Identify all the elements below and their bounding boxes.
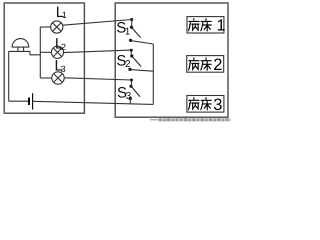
wire bus to lamp L2 bbox=[40, 51, 51, 53]
lamp bus vertical bbox=[39, 27, 41, 78]
right ward box bbox=[115, 3, 228, 117]
svg-text:1: 1 bbox=[125, 26, 131, 37]
left room box bbox=[4, 3, 84, 113]
switch S1 bbox=[129, 18, 141, 42]
wire bus to lamp L3 bbox=[40, 77, 52, 79]
svg-text:3: 3 bbox=[61, 64, 66, 74]
wire lamp L3 to switch S3 bbox=[64, 78, 131, 80]
battery negative plate bbox=[28, 98, 30, 106]
svg-text:2: 2 bbox=[61, 42, 66, 52]
battery left wire bbox=[9, 100, 29, 102]
wire S2 bottom to bus bbox=[130, 70, 153, 72]
text 病床1 (glyphs drawn as paths) bbox=[189, 19, 212, 31]
text 病床2 bbox=[189, 58, 212, 70]
bell neck bbox=[18, 47, 24, 51]
svg-text:1: 1 bbox=[62, 10, 67, 20]
bell dome bbox=[12, 39, 29, 47]
svg-text:1: 1 bbox=[217, 17, 226, 34]
wire bell left down to battery bbox=[8, 51, 10, 101]
bed box 1 bbox=[187, 17, 224, 33]
lamp L1 bbox=[51, 21, 63, 33]
bus right vertical bbox=[152, 44, 154, 104]
text 病床3 bbox=[189, 98, 212, 110]
switch S2 bbox=[128, 49, 141, 71]
wire S1 bottom to bus bbox=[131, 41, 154, 44]
battery positive plate bbox=[32, 93, 34, 109]
lamp L2 bbox=[51, 46, 63, 58]
bed box 2 bbox=[187, 56, 224, 73]
wire lamp L2 to switch S2 bbox=[64, 50, 132, 53]
wire bus to lamp L1 bbox=[40, 26, 51, 28]
bed box 3 bbox=[187, 96, 224, 113]
svg-text:2: 2 bbox=[213, 56, 222, 74]
switch S3 bbox=[129, 79, 140, 101]
battery wire to bus bottom corner bbox=[33, 101, 154, 104]
wire bell right to lamp bus bbox=[30, 51, 41, 54]
wire lamp L1 to switch S1 bbox=[63, 20, 132, 26]
svg-text:3: 3 bbox=[213, 96, 222, 114]
watermark bbox=[150, 118, 232, 121]
wire S3 bottom leg down bbox=[129, 99, 131, 104]
svg-text:2: 2 bbox=[125, 59, 131, 70]
bell hanger bar bbox=[9, 50, 30, 52]
lamp L3 bbox=[52, 72, 64, 84]
